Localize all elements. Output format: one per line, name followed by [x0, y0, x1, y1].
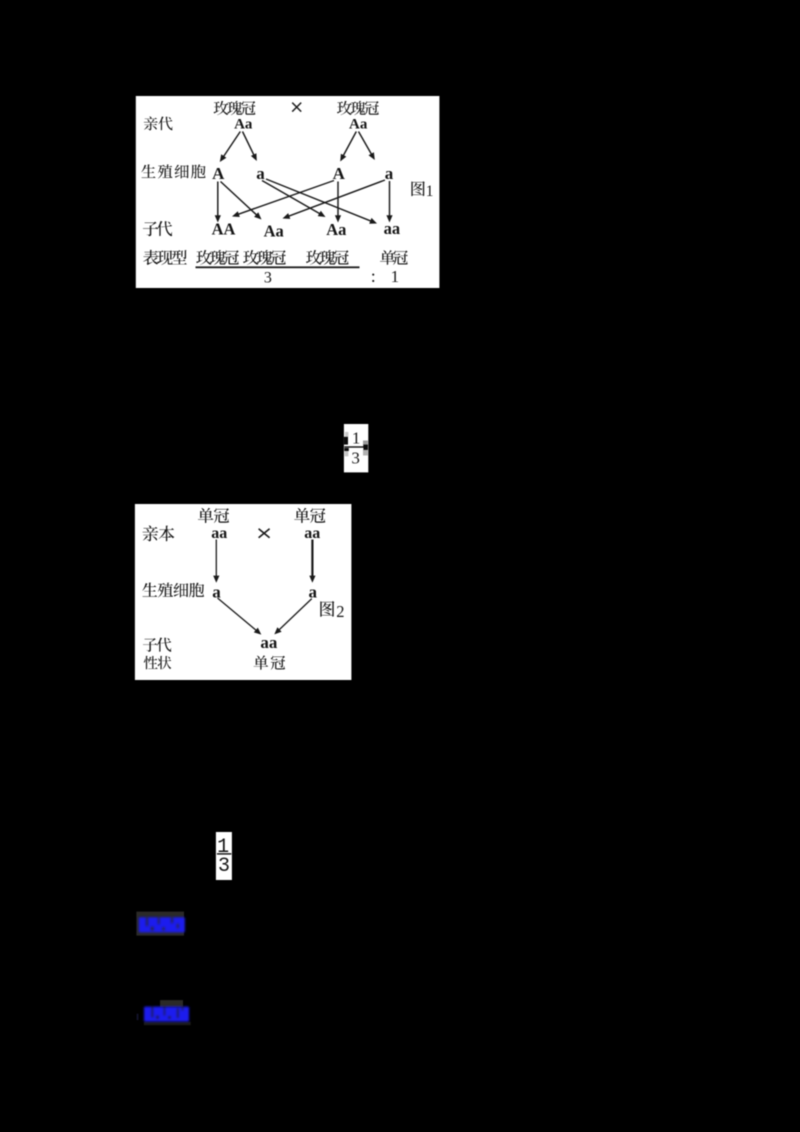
label trait 性状	[144, 656, 158, 669]
label reproductive cells 生殖细胞	[142, 583, 157, 597]
svg-text:a: a	[309, 583, 318, 602]
label parents 亲代	[144, 116, 158, 130]
arrow a-left to aa	[218, 598, 257, 631]
fraction bar	[217, 853, 231, 854]
label reproductive cells 生殖细胞	[141, 164, 155, 177]
label rose-comb right	[337, 101, 352, 115]
fraction bar	[344, 446, 364, 447]
underline under rose-comb phenotypes	[196, 266, 360, 268]
arrow Aa-left to A	[223, 132, 240, 157]
panel 2: genetics cross diagram 图2	[135, 504, 352, 680]
arrow a-right to aa	[279, 599, 312, 631]
phenotype rose-comb 2	[243, 250, 259, 265]
svg-text:1: 1	[426, 183, 434, 200]
highlighted answer link 1	[136, 912, 184, 936]
line A2 to Aa2	[337, 182, 339, 217]
svg-text:1: 1	[391, 267, 400, 286]
svg-text:Aa: Aa	[264, 222, 284, 241]
label single-comb left	[198, 508, 214, 523]
arrow Aa-right to A	[343, 132, 356, 157]
svg-text:1: 1	[352, 428, 361, 447]
arrow Aa-left to a	[243, 132, 255, 156]
svg-text:AA: AA	[212, 220, 236, 239]
svg-text:aa: aa	[211, 525, 227, 542]
line a2 to aa	[389, 181, 391, 216]
svg-text:aa: aa	[260, 633, 278, 652]
label rose-comb left	[214, 101, 229, 115]
svg-text::: :	[371, 266, 376, 286]
arrow aa-left to a	[215, 540, 217, 577]
cross symbol	[259, 529, 270, 538]
svg-text:3: 3	[351, 448, 360, 467]
svg-text:3: 3	[264, 269, 272, 286]
line a1 to aa	[266, 179, 371, 221]
arrow Aa-right to a	[359, 132, 372, 155]
equation object fraction 1/3 (selected)	[344, 424, 368, 472]
svg-text:a: a	[256, 164, 265, 183]
label single-comb right	[294, 508, 310, 523]
svg-text:aa: aa	[384, 219, 401, 238]
figure label 图2	[320, 601, 334, 617]
cross symbol	[292, 103, 301, 112]
line a2 to Aa1	[288, 180, 385, 216]
line A1 to AA	[217, 182, 219, 217]
label offspring 子代	[143, 222, 158, 237]
svg-text:A: A	[212, 164, 225, 183]
svg-text:aa: aa	[304, 525, 320, 542]
phenotype rose-comb 3	[306, 250, 322, 265]
svg-text:3: 3	[218, 855, 230, 878]
svg-text:Aa: Aa	[234, 116, 253, 132]
svg-text:a: a	[385, 164, 394, 183]
svg-text:A: A	[333, 164, 346, 183]
label phenotype 表现型	[143, 250, 158, 265]
drag dot	[363, 445, 368, 450]
figure label 图1	[411, 181, 424, 196]
svg-text:Aa: Aa	[349, 116, 368, 132]
highlighted answer link 2	[160, 1000, 183, 1007]
phenotype single-comb 单冠	[380, 250, 395, 265]
phenotype rose-comb 1	[196, 250, 212, 265]
trait single-comb 单冠	[254, 655, 269, 669]
label offspring 子代	[143, 638, 157, 652]
svg-text:a: a	[212, 583, 221, 602]
arrow aa-right to a	[311, 540, 313, 577]
line a1 to Aa2	[262, 181, 320, 214]
svg-text:Aa: Aa	[326, 220, 346, 239]
fraction 1/3 (second)	[216, 832, 232, 880]
line A1 to Aa1	[221, 182, 258, 216]
svg-text:2: 2	[336, 602, 344, 621]
label parents 亲本	[142, 525, 158, 541]
line A2 to AA	[238, 181, 334, 215]
panel 1: genetics cross diagram 图1	[136, 96, 440, 288]
